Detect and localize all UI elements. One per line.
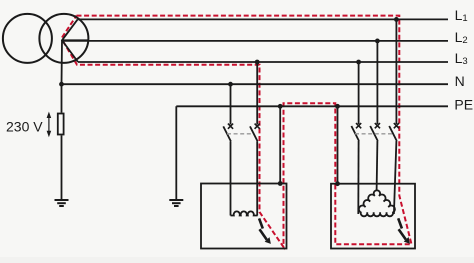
ground transformer earth bbox=[55, 200, 69, 206]
wire below pole L3 bbox=[256, 141, 258, 215]
breaker Q2 pole1 contact x bbox=[356, 123, 361, 128]
node N tap left load bbox=[228, 82, 233, 87]
secondary star point wye bbox=[62, 19, 88, 62]
wire L3 pole drop right bbox=[358, 62, 360, 124]
node PE on left box frame bbox=[278, 181, 283, 186]
node neutral-N junction bbox=[59, 82, 64, 87]
node L3 tap right load bbox=[356, 60, 361, 65]
wire below Q2 pole3 bbox=[394, 141, 397, 214]
breaker Q1 pole N blade bbox=[223, 126, 231, 141]
wire L3 bus bbox=[78, 61, 448, 63]
breaker Q1 pole L3 contact x bbox=[255, 124, 260, 129]
wire PE drop left load bbox=[279, 106, 281, 183]
ground PE earth bbox=[169, 200, 183, 206]
wire below Q2 pole2 bbox=[376, 141, 379, 191]
node L2 tap right load bbox=[375, 39, 380, 44]
breaker Q2 pole1 blade bbox=[351, 126, 359, 141]
left load enclosure box bbox=[201, 184, 287, 249]
voltage arrow bbox=[47, 112, 52, 138]
wire N bus bbox=[62, 83, 449, 85]
right load enclosure box bbox=[331, 184, 415, 249]
transformer T1 primary winding bbox=[3, 14, 52, 63]
svg-text:N: N bbox=[455, 73, 465, 89]
fault bolt left box bbox=[259, 218, 270, 243]
breaker Q1 pole L3 blade bbox=[250, 126, 258, 141]
inductor load winding left box bbox=[231, 211, 258, 215]
breaker Q2 pole3 blade bbox=[389, 126, 397, 141]
wire PE drop right load bbox=[337, 106, 339, 183]
node L1 tap right load bbox=[394, 17, 399, 22]
svg-text:230 V: 230 V bbox=[6, 119, 43, 135]
breaker Q2 pole2 blade bbox=[370, 126, 378, 141]
wire PE to earth elbow bbox=[175, 106, 177, 200]
breaker Q2 pole3 contact x bbox=[394, 123, 399, 128]
breaker Q2 mechanical link bbox=[355, 133, 392, 135]
motor delta winding right box bbox=[359, 190, 395, 216]
node PE tap left load bbox=[278, 104, 283, 109]
transformer T1 secondary winding bbox=[39, 14, 88, 63]
svg-text:PE: PE bbox=[454, 97, 473, 113]
wire L2 pole drop right bbox=[376, 41, 378, 124]
wire below pole N bbox=[230, 141, 232, 215]
breaker Q2 pole2 contact x bbox=[375, 123, 380, 128]
breaker Q1 mechanical link bbox=[227, 133, 252, 135]
wire below Q2 pole1 bbox=[357, 141, 359, 214]
wire L1 bus bbox=[78, 18, 448, 20]
wire L3 pole drop bbox=[256, 62, 258, 124]
node L3 tap left load bbox=[255, 60, 260, 65]
fault bolt right box bbox=[398, 218, 409, 243]
wire neutral to earth bbox=[61, 40, 64, 200]
breaker Q1 pole N contact x bbox=[228, 124, 233, 129]
node PE tap right load bbox=[335, 104, 340, 109]
fault loop red dashed path bbox=[62, 16, 412, 247]
wire L1 pole drop right bbox=[395, 19, 397, 124]
wire PE bus bbox=[176, 105, 448, 107]
wire N pole drop bbox=[230, 84, 232, 124]
wire L2 bus bbox=[62, 40, 448, 42]
node PE on right box frame bbox=[335, 181, 340, 186]
impedance Z earthing bbox=[58, 114, 64, 135]
